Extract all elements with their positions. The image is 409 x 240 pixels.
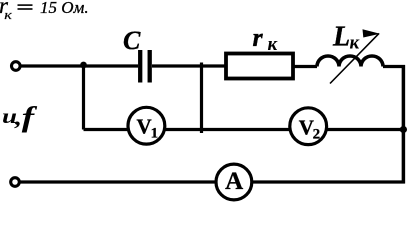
svg-text:1: 1 xyxy=(151,125,159,141)
svg-text:L: L xyxy=(332,21,350,52)
svg-text:к: к xyxy=(268,34,279,55)
svg-text:A: A xyxy=(225,168,243,195)
svg-text:C: C xyxy=(123,26,141,55)
svg-text:к: к xyxy=(350,32,361,53)
svg-text:r: r xyxy=(253,23,264,52)
svg-text:V: V xyxy=(137,115,152,139)
svg-text:15 Ом.: 15 Ом. xyxy=(40,0,89,17)
svg-text:,: , xyxy=(14,107,22,131)
svg-text:2: 2 xyxy=(313,127,321,143)
svg-text:к: к xyxy=(4,8,12,22)
